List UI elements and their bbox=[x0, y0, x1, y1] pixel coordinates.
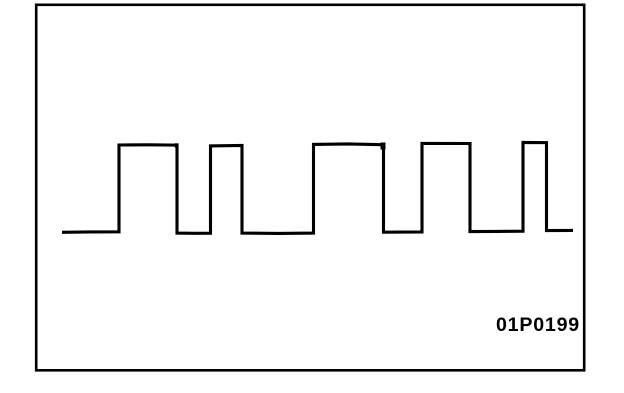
wire waveform pulse train bbox=[62, 142, 573, 233]
scan blob at pulse 1 top-right corner bbox=[175, 143, 179, 148]
scan blob at pulse 3 top-right corner bbox=[381, 143, 386, 150]
svg-text:01P0199: 01P0199 bbox=[496, 314, 580, 336]
